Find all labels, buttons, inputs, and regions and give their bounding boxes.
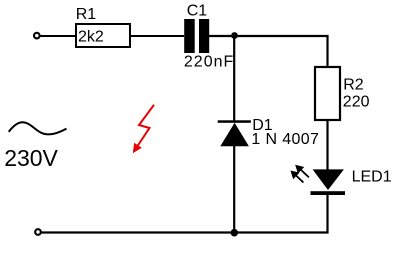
- svg-text:1 N 4007: 1 N 4007: [251, 131, 319, 148]
- svg-text:C1: C1: [187, 3, 208, 20]
- node junction bottom: [231, 229, 239, 237]
- hazard lightning bolt: [133, 105, 154, 154]
- wire LED1 to bottom-right corner and left along bottom: [42, 195, 328, 233]
- svg-text:2k2: 2k2: [78, 29, 104, 46]
- resistor R1: [76, 24, 130, 47]
- wire junction down to D1: [233, 36, 235, 121]
- LED1 light arrow 2: [292, 172, 304, 183]
- capacitor C1 plate 2: [199, 19, 209, 53]
- LED1 triangle: [313, 169, 344, 190]
- svg-text:R2: R2: [343, 77, 364, 94]
- terminal bottom-left: [35, 229, 41, 235]
- svg-text:LED1: LED1: [352, 169, 392, 186]
- wire terminal to R1: [41, 35, 76, 37]
- svg-text:R1: R1: [76, 6, 97, 23]
- svg-text:220nF: 220nF: [184, 54, 234, 71]
- svg-text:230V: 230V: [4, 145, 58, 171]
- LED1 light arrow 1: [297, 166, 309, 177]
- AC sine symbol: [9, 122, 67, 134]
- wire D1 to bottom wire: [233, 146, 235, 233]
- diode D1 cathode bar: [218, 120, 251, 123]
- node junction top: [231, 32, 238, 39]
- diode D1 triangle: [220, 123, 249, 147]
- wire R1 to C1: [131, 35, 184, 37]
- wire R2 to LED1: [326, 120, 328, 170]
- resistor R2: [315, 67, 340, 120]
- svg-text:220: 220: [343, 93, 370, 110]
- wire C1 to top-right corner and down to R2: [209, 36, 328, 66]
- capacitor C1 plate 1: [184, 19, 195, 53]
- terminal top-left: [34, 33, 40, 39]
- LED1 cathode bar: [311, 191, 346, 195]
